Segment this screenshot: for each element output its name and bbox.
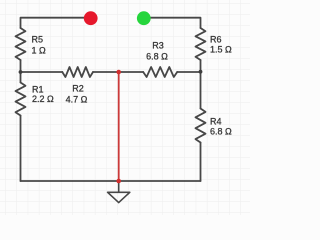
green terminal dot bbox=[137, 11, 151, 25]
wire left middle (R5 bottom to junction to R1 top) bbox=[20, 60, 22, 83]
resistor R5 bbox=[16, 28, 26, 60]
svg-text:6.8 Ω: 6.8 Ω bbox=[210, 127, 232, 137]
wire right middle (R6 bottom to junction to R4 top) bbox=[200, 60, 202, 109]
junction red node bottom bbox=[116, 179, 121, 184]
resistor R4 bbox=[196, 109, 206, 143]
red terminal dot bbox=[84, 11, 98, 25]
resistor R2 bbox=[62, 67, 93, 77]
junction right middle bbox=[199, 70, 203, 74]
svg-text:R3: R3 bbox=[152, 41, 164, 51]
wire middle rail left (left junction to R2) bbox=[21, 71, 63, 73]
svg-text:6.8 Ω: 6.8 Ω bbox=[146, 52, 168, 62]
junction left middle bbox=[19, 70, 23, 74]
svg-text:4.7 Ω: 4.7 Ω bbox=[66, 95, 88, 105]
resistor R1 bbox=[16, 83, 26, 116]
svg-text:1.5 Ω: 1.5 Ω bbox=[210, 45, 232, 55]
ground bbox=[108, 181, 130, 203]
junction red node top bbox=[116, 70, 121, 75]
svg-text:R2: R2 bbox=[72, 84, 84, 94]
svg-text:2.2 Ω: 2.2 Ω bbox=[32, 94, 54, 104]
wire red (node to ground rail) bbox=[118, 72, 120, 181]
wire middle rail right (R3 to right junction) bbox=[177, 71, 200, 73]
svg-text:R5: R5 bbox=[32, 34, 44, 44]
wire middle rail center (R2 to R3 through red node) bbox=[93, 71, 143, 73]
svg-text:R4: R4 bbox=[210, 117, 222, 127]
wire left lower (R1 bottom to bottom-left corner) bbox=[20, 116, 22, 182]
wire right lower (R4 bottom to bottom-right corner) bbox=[200, 143, 202, 182]
svg-text:1 Ω: 1 Ω bbox=[32, 45, 47, 55]
svg-text:R6: R6 bbox=[210, 35, 222, 45]
svg-text:R1: R1 bbox=[32, 84, 44, 94]
wire bottom rail bbox=[21, 180, 201, 182]
wire top-right segment bbox=[144, 18, 201, 28]
resistor R6 bbox=[196, 28, 206, 60]
wire top-left segment bbox=[21, 18, 91, 28]
resistor R3 bbox=[143, 67, 177, 77]
